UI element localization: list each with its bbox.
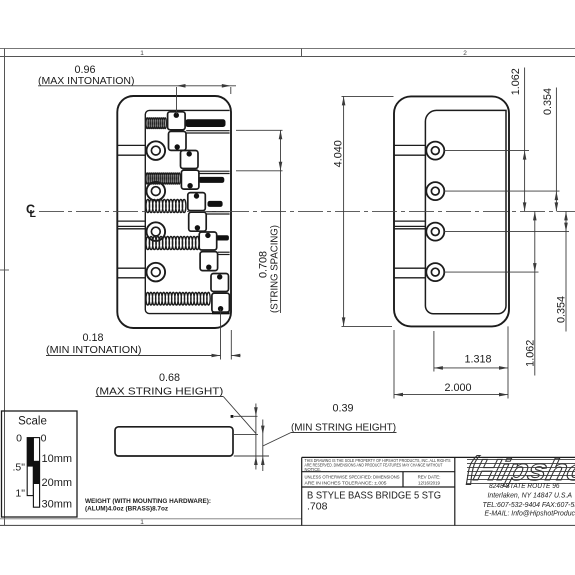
saddle 1 upper block	[168, 112, 186, 130]
underline min string height	[291, 432, 397, 434]
dimension 1.062 top	[524, 68, 526, 212]
border top line inner	[0, 56, 575, 58]
svg-text:TEL:607-532-9404 FAX:607-532-9: TEL:607-532-9404 FAX:607-532-9740	[483, 502, 575, 509]
svg-text:10mm: 10mm	[42, 453, 73, 465]
hipshot logo	[466, 453, 575, 486]
svg-text:(MIN STRING HEIGHT): (MIN STRING HEIGHT)	[291, 423, 396, 434]
string 4 line	[218, 251, 230, 253]
extension line plate right bottom	[230, 330, 232, 360]
max string line	[234, 415, 258, 417]
right view mounting hole 1 inner	[431, 147, 439, 155]
svg-text:(STRING SPACING): (STRING SPACING)	[270, 225, 281, 313]
scale inch bar	[27, 438, 33, 496]
left view inner plate outline	[145, 110, 229, 313]
svg-text:(MAX STRING HEIGHT): (MAX STRING HEIGHT)	[96, 387, 224, 398]
right view flange notch line	[394, 277, 425, 279]
leader 0.68	[223, 397, 256, 434]
arrow 0.354b b	[564, 223, 568, 232]
string 3 line	[206, 211, 229, 213]
saddle 3 set screws	[194, 193, 199, 198]
dimension 2.000	[393, 330, 395, 399]
dimension 0.708 STRING SPACING	[236, 129, 283, 131]
arrow 0.708 top	[279, 130, 283, 139]
flange notch line	[117, 225, 145, 227]
string 2 line	[199, 170, 230, 172]
dim line 0.39	[262, 420, 264, 472]
plate bottom extension	[234, 455, 269, 457]
hole 3 extension line	[444, 231, 569, 233]
right view mounting hole 3 outer	[426, 223, 444, 241]
saddle 1 set screws	[174, 113, 179, 118]
arrow 2.000 r	[499, 393, 508, 397]
right view mounting hole 2 outer	[426, 182, 444, 200]
right view mounting hole 2 inner	[431, 187, 439, 195]
extension line plate right top	[230, 87, 232, 94]
svg-text:ARE RESERVED. DIMENSIONS AND P: ARE RESERVED. DIMENSIONS AND PRODUCT FEA…	[305, 462, 443, 467]
dimension 1.318	[433, 331, 435, 372]
right view flange notch line	[394, 220, 425, 222]
arrow 0.354b	[564, 211, 568, 220]
border top line outer	[0, 48, 575, 50]
arrow 1.318 l	[434, 366, 443, 370]
svg-text:2: 2	[463, 50, 467, 57]
svg-text:20mm: 20mm	[42, 477, 73, 489]
saddle 5 lower block	[212, 293, 230, 312]
min string line	[234, 434, 258, 436]
svg-text:Scale: Scale	[18, 416, 47, 428]
dimension 0.354 bottom	[565, 211, 567, 331]
flange notch line	[117, 267, 145, 269]
max string height reference dot	[231, 415, 234, 418]
right view flange notch line	[394, 267, 425, 269]
right view flange notch line	[394, 144, 425, 146]
saddle 3 upper block	[188, 193, 206, 211]
saddle 4 spring	[146, 236, 199, 249]
svg-text:0.68: 0.68	[159, 372, 180, 384]
scale legend box	[2, 411, 78, 517]
arrow 0.18 left	[212, 354, 221, 358]
saddle 4 upper block	[199, 232, 217, 250]
saddle 4 set screws	[205, 233, 210, 238]
svg-text:0.39: 0.39	[332, 403, 353, 415]
svg-text:8248 STATE ROUTE 96: 8248 STATE ROUTE 96	[489, 483, 560, 490]
svg-text:NOTICE.: NOTICE.	[305, 467, 322, 472]
saddle 2 lower block	[181, 170, 199, 189]
left view mounting hole 3 inner	[151, 227, 160, 236]
svg-text:(MIN INTONATION): (MIN INTONATION)	[46, 345, 142, 356]
saddle 2 intonation screw	[199, 177, 225, 183]
left view mounting hole 3 outer	[147, 222, 166, 241]
leader 0.39	[263, 433, 291, 447]
svg-text:(MAX INTONATION): (MAX INTONATION)	[38, 76, 135, 87]
saddle 3 spring	[146, 199, 186, 212]
right view mounting hole 4 outer	[426, 263, 444, 281]
right view mounting hole 4 inner	[431, 268, 439, 276]
svg-text:1: 1	[140, 519, 144, 526]
svg-text:1.062: 1.062	[525, 340, 537, 367]
svg-text:0.354: 0.354	[542, 88, 554, 115]
svg-text:REV DATE:: REV DATE:	[418, 474, 441, 479]
saddle 1 intonation screw	[185, 119, 225, 127]
border top zone tick	[301, 49, 303, 57]
left view mounting hole 2 inner	[151, 187, 160, 196]
arrow 0.96 right	[222, 84, 231, 88]
flange notch line	[117, 144, 145, 146]
svg-text:(ALUM)4.0oz (BRASS)8.7oz: (ALUM)4.0oz (BRASS)8.7oz	[85, 506, 168, 513]
svg-text:0: 0	[16, 433, 22, 445]
horizontal centerline	[39, 210, 575, 212]
left view mounting hole 1 inner	[151, 146, 160, 155]
right view flange notch line	[394, 228, 425, 230]
svg-text:WEIGHT (WITH MOUNTING HARDWARE: WEIGHT (WITH MOUNTING HARDWARE):	[85, 498, 211, 505]
string 1 line	[186, 130, 229, 132]
saddle 5 spring	[146, 292, 210, 305]
svg-text:UNLESS OTHERWISE SPECIFIED: DI: UNLESS OTHERWISE SPECIFIED: DIMENSIONS	[305, 474, 400, 479]
dim line 0.68	[255, 404, 257, 470]
svg-text:Hipshot: Hipshot	[471, 453, 575, 486]
right view flange notch line	[394, 225, 425, 227]
svg-text:L: L	[30, 208, 37, 220]
svg-text:30mm: 30mm	[42, 499, 73, 511]
svg-text:0.18: 0.18	[82, 332, 103, 344]
left view mounting hole 2 outer	[147, 182, 166, 201]
arrow 4.040 top	[342, 96, 346, 105]
arrow 0.354t b	[555, 202, 559, 211]
svg-text:ARE IN INCHES TOLERANCE: ±.00: ARE IN INCHES TOLERANCE: ±.005	[305, 480, 388, 485]
left view mounting hole 4 outer	[147, 263, 166, 282]
svg-text:0.354: 0.354	[556, 296, 568, 323]
svg-text:1.062: 1.062	[510, 68, 522, 95]
arrow 0.708 bottom	[279, 162, 283, 171]
border left zone tick	[0, 269, 9, 271]
extension line saddle1 screw	[176, 87, 178, 114]
svg-text:.708: .708	[307, 501, 328, 513]
svg-text:4.040: 4.040	[333, 140, 345, 167]
saddle 5 set screws	[217, 274, 222, 279]
svg-text:1": 1"	[15, 488, 25, 500]
svg-text:0.708: 0.708	[258, 251, 270, 278]
border bottom line outer	[0, 524, 575, 526]
arrow 4.040 bottom	[342, 317, 346, 326]
logo leading slash	[466, 456, 480, 485]
hole 2 extension line	[444, 190, 559, 192]
saddle 2 upper block	[181, 151, 199, 169]
title block frame	[302, 456, 575, 458]
scale mm bar	[33, 438, 39, 508]
dimension 0.354 top	[555, 88, 557, 212]
right view mounting hole 3 inner	[431, 228, 439, 236]
svg-text:E-MAIL: Info@HipshotProducts.c: E-MAIL: Info@HipshotProducts.com	[485, 510, 575, 517]
arrow 0.18 right	[231, 354, 240, 358]
arrow 1.062t b	[523, 202, 527, 211]
flange notch line	[117, 220, 145, 222]
saddle 1 spring	[146, 118, 166, 129]
svg-text:1.318: 1.318	[464, 354, 491, 366]
border left line	[4, 49, 6, 526]
dimension 1.062 bottom	[534, 211, 536, 375]
dimension 4.040	[342, 95, 394, 97]
hole 1 extension line	[444, 150, 529, 152]
flange notch line	[117, 154, 145, 156]
flange notch line	[117, 228, 145, 230]
right view outer base plate	[394, 96, 509, 326]
flange notch line	[117, 277, 145, 279]
arrow 2.000 l	[394, 393, 403, 397]
svg-text:0.96: 0.96	[74, 64, 95, 76]
saddle 2 spring	[146, 173, 180, 184]
side view base plate	[115, 427, 233, 456]
saddle 3 intonation screw	[208, 201, 223, 207]
right view mounting hole 1 outer	[426, 142, 444, 160]
right view flange notch line	[394, 154, 425, 156]
saddle 5 upper block	[211, 274, 229, 292]
saddle 3 lower block	[189, 212, 207, 231]
svg-text:12/16/2019: 12/16/2019	[418, 480, 441, 485]
arrow 0.96 left	[177, 84, 186, 88]
arrow 0.354t	[555, 191, 559, 200]
saddle 4 lower block	[200, 252, 218, 271]
svg-text:.5": .5"	[13, 462, 26, 474]
left view mounting hole 1 outer	[147, 141, 166, 160]
hole 4 extension line	[444, 271, 538, 273]
border bottom line inner	[0, 518, 302, 520]
svg-text:0: 0	[41, 433, 47, 445]
arrow 1.062t	[523, 151, 527, 160]
svg-text:2.000: 2.000	[444, 382, 471, 394]
left view mounting hole 4 inner	[151, 268, 160, 277]
arrow 1.318 r	[499, 366, 508, 370]
extension line saddle5 screw	[220, 309, 222, 360]
arrow 1.062b b	[533, 263, 537, 272]
saddle 1 lower block	[169, 131, 187, 150]
saddle 4 intonation screw	[215, 235, 229, 240]
svg-text:Interlaken, NY 14847 U.S.A: Interlaken, NY 14847 U.S.A	[488, 493, 573, 500]
saddle 2 set screws	[187, 151, 192, 156]
arrow 1.062b	[533, 211, 537, 220]
saddle 5 screw strip	[212, 311, 230, 314]
right view inner outline	[425, 110, 506, 313]
left view outer base plate	[117, 96, 231, 328]
svg-text:1: 1	[140, 50, 144, 57]
